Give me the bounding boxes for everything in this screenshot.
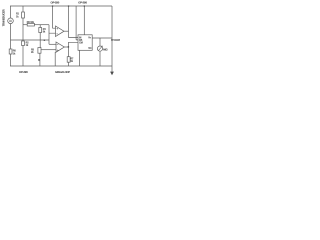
- resistor R2: [22, 41, 25, 46]
- resistor R1: [22, 12, 25, 18]
- wire meter tap: [99, 38, 101, 46]
- wire left drop to source: [10, 6, 12, 18]
- node dot rail: [84, 5, 85, 6]
- wire node B drop: [39, 25, 41, 28]
- wire U1 output: [64, 30, 69, 32]
- node dot C: [38, 59, 40, 61]
- wire R7 to bottom rail: [67, 62, 69, 66]
- svg-text:OP-290: OP-290: [78, 1, 87, 5]
- wire R4 to R5: [39, 33, 41, 48]
- wire meter to bottom rail: [99, 51, 101, 66]
- wire R1 to node: [22, 18, 24, 41]
- resistor R3: [27, 23, 34, 26]
- wire box bottom to rail: [78, 50, 80, 66]
- resistor R4: [39, 28, 42, 33]
- wire node to R3: [23, 24, 27, 26]
- wire U2 output: [64, 46, 68, 48]
- node dot rail3: [68, 5, 69, 6]
- wire noninverting input U2: [49, 43, 56, 45]
- node dot B: [68, 46, 69, 47]
- ground arrow head: [110, 72, 114, 76]
- wire pin3 node: [68, 42, 78, 56]
- wire rail to pin2: [76, 6, 78, 40]
- wire inverting input U2: [41, 49, 56, 51]
- wire rail to U1 plus: [53, 6, 56, 28]
- svg-text:VOUT: VOUT: [113, 38, 120, 42]
- wire rail to pin1: [69, 6, 79, 38]
- svg-text:OP-290: OP-290: [19, 70, 28, 74]
- op-amp U1: [56, 26, 65, 37]
- wire inverting input U1: [49, 25, 56, 45]
- svg-text:OP-290: OP-290: [51, 1, 60, 5]
- ground: [111, 66, 113, 72]
- wire right rail: [111, 6, 113, 66]
- wire node row y40: [11, 39, 50, 41]
- meter M1: [97, 46, 102, 51]
- wire R3 to node B: [34, 24, 49, 26]
- wire box out to right rail: [92, 37, 112, 39]
- wire rail to box top: [83, 6, 85, 35]
- wire R2 to bottom rail: [22, 46, 24, 67]
- svg-text:R3 10k: R3 10k: [27, 21, 35, 24]
- svg-text:CM: CM: [79, 42, 83, 45]
- source V1: [8, 18, 14, 24]
- wire R1 drop: [22, 6, 24, 12]
- svg-text:VO: VO: [88, 47, 91, 50]
- wire U2 supply stub: [54, 52, 56, 66]
- svg-text:4-20mA LOOP: 4-20mA LOOP: [55, 70, 70, 74]
- wire R5 to bottom rail: [39, 53, 41, 66]
- op-amp U2: [56, 42, 64, 52]
- resistor R6: [9, 49, 12, 54]
- resistor R5: [38, 48, 41, 54]
- node dot out: [111, 39, 113, 41]
- node dot rail2: [52, 5, 53, 6]
- wire top rail: [10, 5, 112, 7]
- resistor R7: [67, 57, 70, 63]
- node dot A: [44, 40, 45, 41]
- wire source to bottom: [10, 24, 12, 49]
- wire R6 to bottom rail: [10, 54, 12, 66]
- wire bottom rail: [10, 65, 112, 67]
- IC box U3: [78, 35, 92, 51]
- svg-text:TRANSDUCER: TRANSDUCER: [2, 9, 6, 26]
